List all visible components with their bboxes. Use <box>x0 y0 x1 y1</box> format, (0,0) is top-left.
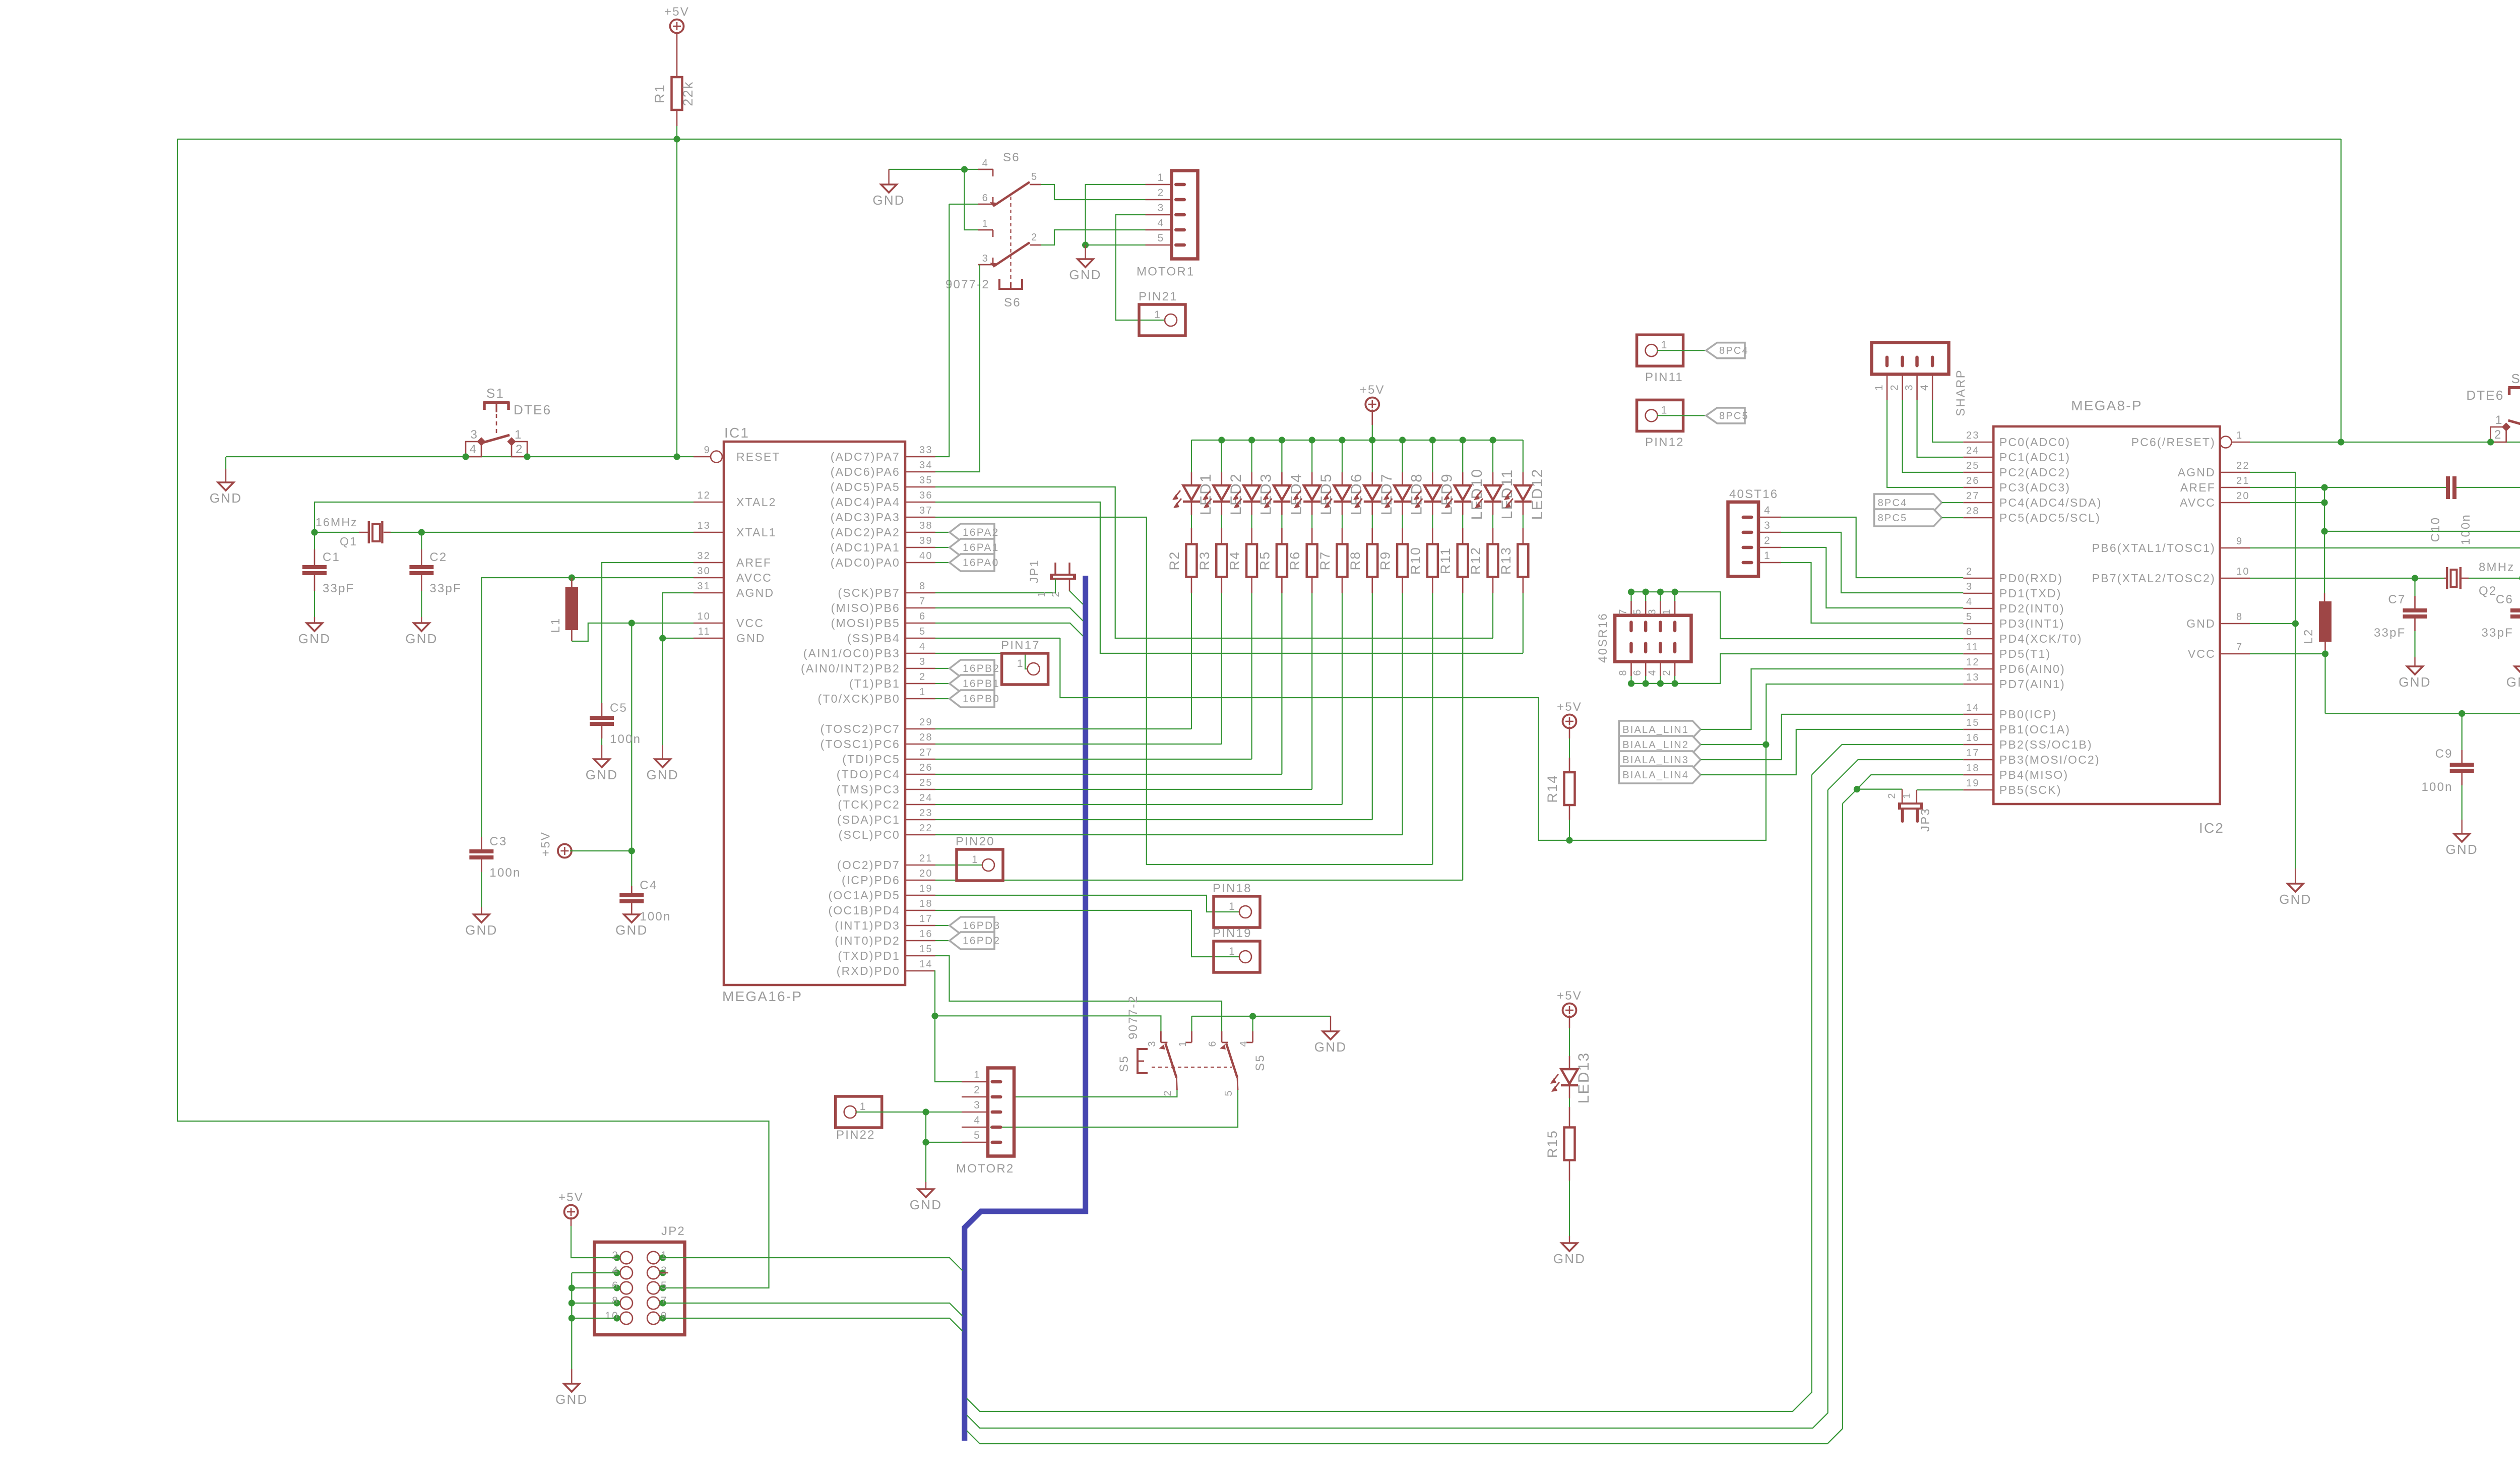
svg-text:3: 3 <box>661 1265 668 1276</box>
svg-text:GND: GND <box>586 767 618 782</box>
svg-text:1: 1 <box>1873 384 1885 391</box>
svg-text:JP1: JP1 <box>1028 559 1041 583</box>
svg-text:1: 1 <box>515 428 523 442</box>
svg-text:13: 13 <box>697 520 711 531</box>
svg-text:RESET: RESET <box>736 450 781 463</box>
svg-text:6: 6 <box>919 611 926 622</box>
svg-text:PIN22: PIN22 <box>836 1128 875 1142</box>
svg-text:PIN21: PIN21 <box>1139 290 1178 303</box>
svg-text:(T1)PB1: (T1)PB1 <box>849 677 900 690</box>
svg-text:PIN18: PIN18 <box>1213 882 1252 895</box>
svg-text:32: 32 <box>697 550 711 562</box>
svg-text:BIALA_LIN1: BIALA_LIN1 <box>1622 724 1689 735</box>
svg-text:LED6: LED6 <box>1348 473 1365 515</box>
svg-text:PIN20: PIN20 <box>956 835 995 848</box>
svg-text:GND: GND <box>615 922 648 938</box>
svg-text:(ADC6)PA6: (ADC6)PA6 <box>831 465 900 478</box>
svg-text:17: 17 <box>919 913 933 924</box>
svg-text:R2: R2 <box>1167 551 1182 571</box>
svg-text:23: 23 <box>1966 430 1980 441</box>
svg-text:10: 10 <box>2236 566 2250 577</box>
svg-text:PB0(ICP): PB0(ICP) <box>1999 708 2057 721</box>
svg-text:PC3(ADC3): PC3(ADC3) <box>1999 481 2070 494</box>
svg-text:BIALA_LIN3: BIALA_LIN3 <box>1622 755 1689 766</box>
svg-text:9: 9 <box>2236 536 2243 547</box>
svg-text:R3: R3 <box>1197 551 1212 571</box>
svg-text:(TDO)PC4: (TDO)PC4 <box>837 768 900 781</box>
svg-text:(TCK)PC2: (TCK)PC2 <box>838 798 900 811</box>
svg-text:16PA0: 16PA0 <box>963 557 999 569</box>
svg-text:PD3(INT1): PD3(INT1) <box>1999 617 2065 630</box>
svg-text:11: 11 <box>1966 642 1979 653</box>
svg-text:2: 2 <box>1031 232 1038 243</box>
svg-text:LED11: LED11 <box>1499 469 1516 520</box>
svg-text:24: 24 <box>1966 445 1980 456</box>
svg-text:1: 1 <box>1229 946 1236 957</box>
svg-text:2: 2 <box>1158 187 1165 199</box>
svg-text:LED13: LED13 <box>1576 1052 1592 1104</box>
svg-text:30: 30 <box>697 566 711 577</box>
svg-text:22k: 22k <box>680 81 696 106</box>
svg-text:5: 5 <box>661 1280 668 1291</box>
svg-text:39: 39 <box>919 535 933 546</box>
svg-text:(OC1B)PD4: (OC1B)PD4 <box>829 904 901 917</box>
svg-text:C1: C1 <box>323 550 340 564</box>
svg-text:10: 10 <box>697 611 711 622</box>
svg-text:14: 14 <box>1966 702 1980 713</box>
svg-text:2: 2 <box>1050 590 1061 597</box>
svg-text:(ADC2)PA2: (ADC2)PA2 <box>831 526 900 539</box>
svg-text:LED5: LED5 <box>1318 473 1335 515</box>
svg-text:33pF: 33pF <box>2374 626 2406 640</box>
svg-text:(OC2)PD7: (OC2)PD7 <box>837 858 900 872</box>
svg-text:3: 3 <box>919 656 926 667</box>
svg-text:BIALA_LIN2: BIALA_LIN2 <box>1622 739 1689 751</box>
svg-text:33pF: 33pF <box>429 582 462 595</box>
svg-text:GND: GND <box>405 631 437 646</box>
svg-text:8PC4: 8PC4 <box>1878 498 1908 509</box>
svg-text:PC5(ADC5/SCL): PC5(ADC5/SCL) <box>1999 511 2101 524</box>
svg-text:2: 2 <box>1966 566 1973 577</box>
svg-text:R9: R9 <box>1378 551 1393 571</box>
svg-text:IC1: IC1 <box>724 425 749 441</box>
svg-text:5: 5 <box>1031 171 1038 182</box>
svg-text:4: 4 <box>612 1265 619 1276</box>
svg-text:1: 1 <box>1017 658 1024 669</box>
svg-text:2: 2 <box>1764 535 1771 546</box>
svg-text:S6: S6 <box>1003 151 1020 164</box>
svg-text:31: 31 <box>697 581 711 592</box>
svg-text:5: 5 <box>919 626 926 637</box>
svg-text:29: 29 <box>919 717 933 728</box>
svg-text:28: 28 <box>919 732 933 743</box>
svg-text:L2: L2 <box>2302 628 2315 644</box>
svg-text:15: 15 <box>919 944 933 955</box>
svg-text:3: 3 <box>1158 202 1165 214</box>
svg-text:R11: R11 <box>1438 547 1453 574</box>
svg-text:19: 19 <box>1966 778 1980 789</box>
svg-text:+5V: +5V <box>664 5 689 19</box>
svg-text:(OC1A)PD5: (OC1A)PD5 <box>829 889 901 902</box>
svg-text:12: 12 <box>1966 657 1980 668</box>
svg-text:GND: GND <box>2186 617 2216 630</box>
svg-text:C4: C4 <box>640 879 657 892</box>
svg-text:Q1: Q1 <box>340 535 357 548</box>
svg-text:PD1(TXD): PD1(TXD) <box>1999 587 2062 600</box>
svg-text:(TXD)PD1: (TXD)PD1 <box>838 949 900 962</box>
svg-text:(ADC1)PA1: (ADC1)PA1 <box>831 541 900 554</box>
svg-text:C10: C10 <box>2429 517 2442 542</box>
svg-text:7: 7 <box>2236 642 2243 653</box>
svg-text:4: 4 <box>1647 669 1658 675</box>
svg-text:(MISO)PB6: (MISO)PB6 <box>831 601 900 614</box>
svg-text:4: 4 <box>1764 505 1771 516</box>
svg-text:2: 2 <box>919 671 926 683</box>
svg-text:LED7: LED7 <box>1378 473 1395 515</box>
svg-text:1: 1 <box>2236 430 2243 441</box>
svg-text:22: 22 <box>919 823 933 834</box>
svg-text:PB3(MOSI/OC2): PB3(MOSI/OC2) <box>1999 753 2100 766</box>
svg-text:AVCC: AVCC <box>2180 496 2216 509</box>
svg-text:PD5(T1): PD5(T1) <box>1999 647 2051 660</box>
svg-text:4: 4 <box>1966 596 1973 607</box>
svg-text:5: 5 <box>974 1130 981 1141</box>
svg-text:18: 18 <box>1966 763 1980 774</box>
svg-text:L1: L1 <box>549 617 562 633</box>
svg-text:100n: 100n <box>640 910 671 923</box>
svg-text:1: 1 <box>1229 901 1236 912</box>
svg-text:(TDI)PC5: (TDI)PC5 <box>842 753 900 766</box>
svg-text:2: 2 <box>1889 384 1901 391</box>
svg-text:7: 7 <box>919 596 926 607</box>
svg-text:5: 5 <box>1223 1089 1234 1096</box>
svg-text:3: 3 <box>470 428 478 442</box>
svg-text:DTE6: DTE6 <box>2466 388 2504 403</box>
svg-text:R15: R15 <box>1545 1130 1560 1158</box>
svg-text:JP2: JP2 <box>661 1224 685 1238</box>
svg-text:28: 28 <box>1966 506 1980 517</box>
svg-text:8PC5: 8PC5 <box>1878 513 1908 524</box>
svg-text:3: 3 <box>1147 1040 1158 1046</box>
svg-text:33: 33 <box>919 445 933 456</box>
svg-text:S6: S6 <box>1004 296 1021 310</box>
svg-text:8PC4: 8PC4 <box>1719 345 1749 356</box>
svg-text:16PB0: 16PB0 <box>963 693 1000 705</box>
svg-text:C2: C2 <box>429 550 447 564</box>
svg-text:40ST16: 40ST16 <box>1729 487 1778 501</box>
svg-text:VCC: VCC <box>2188 647 2216 660</box>
svg-text:1: 1 <box>1154 309 1161 321</box>
svg-text:12: 12 <box>697 490 711 501</box>
svg-text:16: 16 <box>919 929 933 940</box>
svg-text:24: 24 <box>919 792 933 804</box>
svg-text:6: 6 <box>1632 669 1643 675</box>
svg-text:2: 2 <box>974 1084 981 1096</box>
svg-text:AREF: AREF <box>736 556 772 569</box>
svg-text:9077-2: 9077-2 <box>1126 995 1140 1039</box>
svg-text:PC4(ADC4/SDA): PC4(ADC4/SDA) <box>1999 496 2102 509</box>
svg-text:C6: C6 <box>2496 593 2513 606</box>
svg-text:PC0(ADC0): PC0(ADC0) <box>1999 436 2070 449</box>
svg-text:26: 26 <box>919 762 933 773</box>
svg-text:BIALA_LIN4: BIALA_LIN4 <box>1622 770 1689 781</box>
svg-text:2: 2 <box>1886 792 1898 798</box>
svg-text:3: 3 <box>1904 384 1915 391</box>
svg-text:GND: GND <box>872 193 905 208</box>
svg-text:R13: R13 <box>1498 546 1514 575</box>
svg-text:R14: R14 <box>1545 774 1560 803</box>
svg-text:R8: R8 <box>1348 551 1363 571</box>
svg-text:+5V: +5V <box>558 1191 584 1204</box>
svg-text:GND: GND <box>910 1197 942 1212</box>
svg-text:MEGA16-P: MEGA16-P <box>722 989 802 1004</box>
svg-text:PC1(ADC1): PC1(ADC1) <box>1999 451 2070 464</box>
svg-text:(SS)PB4: (SS)PB4 <box>847 632 900 645</box>
svg-text:1: 1 <box>974 1069 981 1081</box>
svg-text:8PC5: 8PC5 <box>1719 410 1749 421</box>
svg-text:1: 1 <box>1764 550 1771 562</box>
svg-text:GND: GND <box>1314 1039 1347 1055</box>
svg-text:18: 18 <box>919 898 933 909</box>
svg-text:(INT0)PD2: (INT0)PD2 <box>835 934 900 947</box>
svg-text:R5: R5 <box>1257 551 1272 571</box>
svg-text:2: 2 <box>2494 428 2502 442</box>
svg-text:4: 4 <box>1919 384 1930 391</box>
svg-text:PD6(AIN0): PD6(AIN0) <box>1999 662 2065 675</box>
svg-text:PB4(MISO): PB4(MISO) <box>1999 768 2068 781</box>
svg-text:25: 25 <box>1966 460 1980 471</box>
svg-text:4: 4 <box>974 1115 981 1126</box>
svg-text:(AIN0/INT2)PB2: (AIN0/INT2)PB2 <box>801 662 900 675</box>
svg-text:3: 3 <box>974 1099 981 1111</box>
svg-text:PC2(ADC2): PC2(ADC2) <box>1999 466 2070 479</box>
svg-text:5: 5 <box>1158 232 1165 244</box>
svg-text:3: 3 <box>982 253 989 264</box>
svg-text:+5V: +5V <box>1557 989 1582 1003</box>
svg-text:PB5(SCK): PB5(SCK) <box>1999 783 2062 796</box>
svg-text:MEGA8-P: MEGA8-P <box>2071 398 2142 413</box>
svg-text:R10: R10 <box>1408 546 1423 575</box>
svg-text:21: 21 <box>2236 475 2250 486</box>
svg-text:PB6(XTAL1/TOSC1): PB6(XTAL1/TOSC1) <box>2092 541 2216 554</box>
svg-text:4: 4 <box>919 641 926 652</box>
svg-text:1: 1 <box>982 218 989 229</box>
svg-text:GND: GND <box>2399 674 2431 690</box>
svg-text:GND: GND <box>465 922 497 938</box>
svg-text:S5: S5 <box>1117 1055 1131 1072</box>
svg-text:GND: GND <box>298 631 331 646</box>
svg-text:40SR16: 40SR16 <box>1596 612 1610 663</box>
svg-text:2: 2 <box>1661 669 1672 675</box>
svg-text:36: 36 <box>919 490 933 501</box>
svg-text:R7: R7 <box>1317 551 1333 571</box>
svg-text:+5V: +5V <box>539 831 552 856</box>
svg-text:PIN19: PIN19 <box>1213 927 1252 940</box>
svg-text:IC2: IC2 <box>2199 820 2224 836</box>
svg-text:PD4(XCK/T0): PD4(XCK/T0) <box>1999 632 2083 645</box>
svg-text:7: 7 <box>661 1295 668 1307</box>
svg-text:1: 1 <box>1158 172 1165 183</box>
svg-text:LED8: LED8 <box>1409 473 1425 515</box>
svg-text:4: 4 <box>1238 1040 1249 1046</box>
svg-text:(ADC3)PA3: (ADC3)PA3 <box>831 511 900 524</box>
svg-text:MOTOR1: MOTOR1 <box>1137 265 1194 279</box>
svg-text:35: 35 <box>919 475 933 486</box>
svg-text:LED4: LED4 <box>1288 473 1304 515</box>
svg-text:21: 21 <box>919 853 933 864</box>
svg-text:16: 16 <box>1966 732 1980 744</box>
svg-text:PIN11: PIN11 <box>1645 371 1683 384</box>
svg-text:AVCC: AVCC <box>736 571 772 584</box>
svg-text:C3: C3 <box>489 835 507 848</box>
svg-text:LED12: LED12 <box>1529 468 1546 520</box>
svg-text:16PB1: 16PB1 <box>963 678 1000 690</box>
svg-text:(TOSC1)PC6: (TOSC1)PC6 <box>821 737 900 751</box>
svg-text:6: 6 <box>1207 1040 1218 1046</box>
svg-text:19: 19 <box>919 883 933 894</box>
svg-text:GND: GND <box>1553 1251 1586 1266</box>
svg-text:(ADC0)PA0: (ADC0)PA0 <box>831 556 900 569</box>
svg-text:4: 4 <box>469 443 477 456</box>
svg-text:DTE6: DTE6 <box>514 402 551 417</box>
svg-text:AGND: AGND <box>2178 466 2216 479</box>
svg-text:GND: GND <box>2506 674 2520 690</box>
svg-text:23: 23 <box>919 808 933 819</box>
svg-text:7: 7 <box>1618 608 1629 614</box>
svg-text:26: 26 <box>1966 475 1980 486</box>
svg-text:100n: 100n <box>2459 514 2473 545</box>
svg-text:14: 14 <box>919 959 933 970</box>
svg-text:2: 2 <box>1162 1089 1173 1096</box>
svg-text:GND: GND <box>647 767 679 782</box>
svg-text:16PA2: 16PA2 <box>963 527 999 538</box>
svg-text:(SCL)PC0: (SCL)PC0 <box>839 828 900 841</box>
svg-text:16PD3: 16PD3 <box>963 920 1000 932</box>
svg-text:+5V: +5V <box>1360 383 1385 397</box>
svg-text:PB2(SS/OC1B): PB2(SS/OC1B) <box>1999 738 2093 751</box>
svg-text:1: 1 <box>1177 1040 1188 1046</box>
svg-text:+5V: +5V <box>1557 700 1582 714</box>
svg-text:(ADC5)PA5: (ADC5)PA5 <box>831 480 900 493</box>
svg-text:(INT1)PD3: (INT1)PD3 <box>835 919 900 932</box>
svg-text:2: 2 <box>612 1250 619 1261</box>
svg-text:S1: S1 <box>486 386 505 401</box>
svg-text:C7: C7 <box>2388 593 2406 606</box>
svg-text:34: 34 <box>919 460 933 471</box>
svg-text:Q2: Q2 <box>2479 584 2497 598</box>
svg-text:S2: S2 <box>2511 371 2520 386</box>
svg-text:16PA1: 16PA1 <box>963 542 999 553</box>
svg-text:1: 1 <box>1661 404 1668 416</box>
svg-text:PIN12: PIN12 <box>1645 436 1684 449</box>
svg-text:GND: GND <box>210 490 242 506</box>
svg-text:R6: R6 <box>1287 551 1302 571</box>
svg-text:R12: R12 <box>1468 546 1483 575</box>
svg-text:3: 3 <box>1966 581 1973 592</box>
svg-text:1: 1 <box>860 1101 867 1113</box>
svg-text:40: 40 <box>919 550 933 562</box>
svg-text:LED10: LED10 <box>1469 468 1485 520</box>
svg-text:(MOSI)PB5: (MOSI)PB5 <box>831 616 900 630</box>
svg-text:4: 4 <box>982 158 989 169</box>
svg-text:8MHz: 8MHz <box>2479 561 2514 574</box>
svg-text:C5: C5 <box>610 701 627 715</box>
svg-text:37: 37 <box>919 505 933 516</box>
svg-text:GND: GND <box>2279 892 2311 907</box>
svg-text:1: 1 <box>1661 339 1668 351</box>
svg-text:PIN17: PIN17 <box>1001 639 1040 652</box>
svg-text:4: 4 <box>1158 217 1165 229</box>
svg-text:33pF: 33pF <box>2481 626 2513 640</box>
svg-text:LED1: LED1 <box>1198 473 1214 515</box>
svg-text:XTAL1: XTAL1 <box>736 526 777 539</box>
svg-text:100n: 100n <box>2421 780 2452 794</box>
svg-text:LED2: LED2 <box>1228 473 1244 515</box>
svg-text:AREF: AREF <box>2180 481 2216 494</box>
svg-text:XTAL2: XTAL2 <box>736 496 777 509</box>
svg-text:(AIN1/OC0)PB3: (AIN1/OC0)PB3 <box>803 647 900 660</box>
svg-text:33pF: 33pF <box>323 582 355 595</box>
svg-text:PC6(/RESET): PC6(/RESET) <box>2131 436 2216 449</box>
svg-text:8: 8 <box>2236 611 2243 623</box>
svg-text:2: 2 <box>516 443 524 456</box>
svg-text:6: 6 <box>1966 627 1973 638</box>
svg-text:9: 9 <box>661 1310 668 1322</box>
svg-text:5: 5 <box>1632 608 1643 614</box>
svg-text:C9: C9 <box>2435 747 2453 761</box>
svg-text:3: 3 <box>1647 608 1658 614</box>
svg-text:(TMS)PC3: (TMS)PC3 <box>837 783 900 796</box>
svg-text:8: 8 <box>1618 669 1629 675</box>
svg-text:1: 1 <box>1902 792 1913 798</box>
svg-text:25: 25 <box>919 777 933 788</box>
svg-text:MOTOR2: MOTOR2 <box>956 1162 1014 1176</box>
svg-text:(ICP)PD6: (ICP)PD6 <box>842 874 900 887</box>
svg-text:R4: R4 <box>1227 551 1242 571</box>
svg-text:(SDA)PC1: (SDA)PC1 <box>837 813 900 826</box>
svg-text:R1: R1 <box>652 84 667 103</box>
svg-text:100n: 100n <box>610 732 641 746</box>
svg-text:17: 17 <box>1966 748 1980 759</box>
svg-text:6: 6 <box>982 193 989 204</box>
svg-text:GND: GND <box>736 632 766 645</box>
svg-text:JP3: JP3 <box>1919 808 1932 832</box>
svg-text:5: 5 <box>1966 611 1973 623</box>
svg-text:(RXD)PD0: (RXD)PD0 <box>837 964 900 977</box>
svg-text:100n: 100n <box>489 866 521 880</box>
svg-text:AGND: AGND <box>736 586 774 599</box>
svg-text:20: 20 <box>2236 490 2250 502</box>
svg-text:16MHz: 16MHz <box>316 516 358 529</box>
svg-text:GND: GND <box>555 1392 588 1407</box>
svg-text:6: 6 <box>612 1280 619 1291</box>
svg-text:16PB2: 16PB2 <box>963 663 1000 674</box>
svg-text:22: 22 <box>2236 460 2250 471</box>
svg-text:PD2(INT0): PD2(INT0) <box>1999 602 2065 615</box>
svg-text:1: 1 <box>661 1250 668 1261</box>
svg-text:11: 11 <box>698 626 711 637</box>
svg-text:10: 10 <box>605 1310 619 1322</box>
svg-text:13: 13 <box>1966 672 1980 683</box>
svg-text:VCC: VCC <box>736 616 764 630</box>
svg-text:PB7(XTAL2/TOSC2): PB7(XTAL2/TOSC2) <box>2092 572 2216 585</box>
svg-text:PB1(OC1A): PB1(OC1A) <box>1999 723 2070 736</box>
svg-text:GND: GND <box>2446 842 2478 857</box>
svg-text:(ADC4)PA4: (ADC4)PA4 <box>831 496 900 509</box>
svg-text:(SCK)PB7: (SCK)PB7 <box>838 586 900 599</box>
svg-text:27: 27 <box>1966 490 1980 502</box>
svg-text:1: 1 <box>2495 413 2503 427</box>
